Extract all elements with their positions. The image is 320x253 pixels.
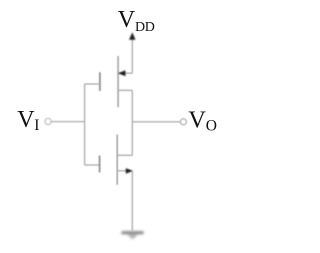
wire PMOS source lead — [118, 72, 132, 74]
node input terminal circle — [45, 118, 51, 124]
transistor Q1 PMOS channel — [117, 56, 119, 107]
svg-text:V: V — [188, 107, 206, 134]
wire output lead — [132, 121, 180, 123]
transistor Q2 NMOS gate bar — [99, 156, 101, 172]
transistor Q2 NMOS channel — [116, 135, 118, 185]
wire PMOS drain lead — [118, 89, 132, 91]
svg-text:DD: DD — [135, 20, 155, 35]
node output terminal circle — [180, 119, 186, 125]
transistor Q1 PMOS gate bar — [99, 73, 101, 90]
wire output vertical — [131, 90, 133, 155]
svg-text:I: I — [34, 117, 39, 134]
wire PMOS gate lead — [85, 83, 100, 85]
wire ground vertical — [131, 171, 133, 231]
wire VDD vertical — [131, 39, 133, 74]
wire NMOS drain lead — [117, 154, 132, 156]
svg-text:V: V — [118, 7, 136, 33]
label VDD — [118, 7, 155, 35]
ground symbol (filled triangle, scan-blurred) — [123, 233, 142, 240]
label VO — [188, 107, 217, 135]
label VI — [17, 107, 39, 134]
transistor Q2 NMOS source arrowhead — [126, 168, 133, 174]
VDD supply arrowhead — [129, 32, 135, 39]
wire NMOS gate lead — [85, 164, 100, 166]
svg-text:V: V — [17, 107, 35, 133]
svg-text:O: O — [206, 117, 217, 134]
wire NMOS source lead — [117, 170, 132, 172]
wire gate bus — [84, 84, 86, 165]
wire input lead — [51, 121, 84, 123]
transistor Q1 PMOS source arrowhead — [118, 70, 125, 76]
